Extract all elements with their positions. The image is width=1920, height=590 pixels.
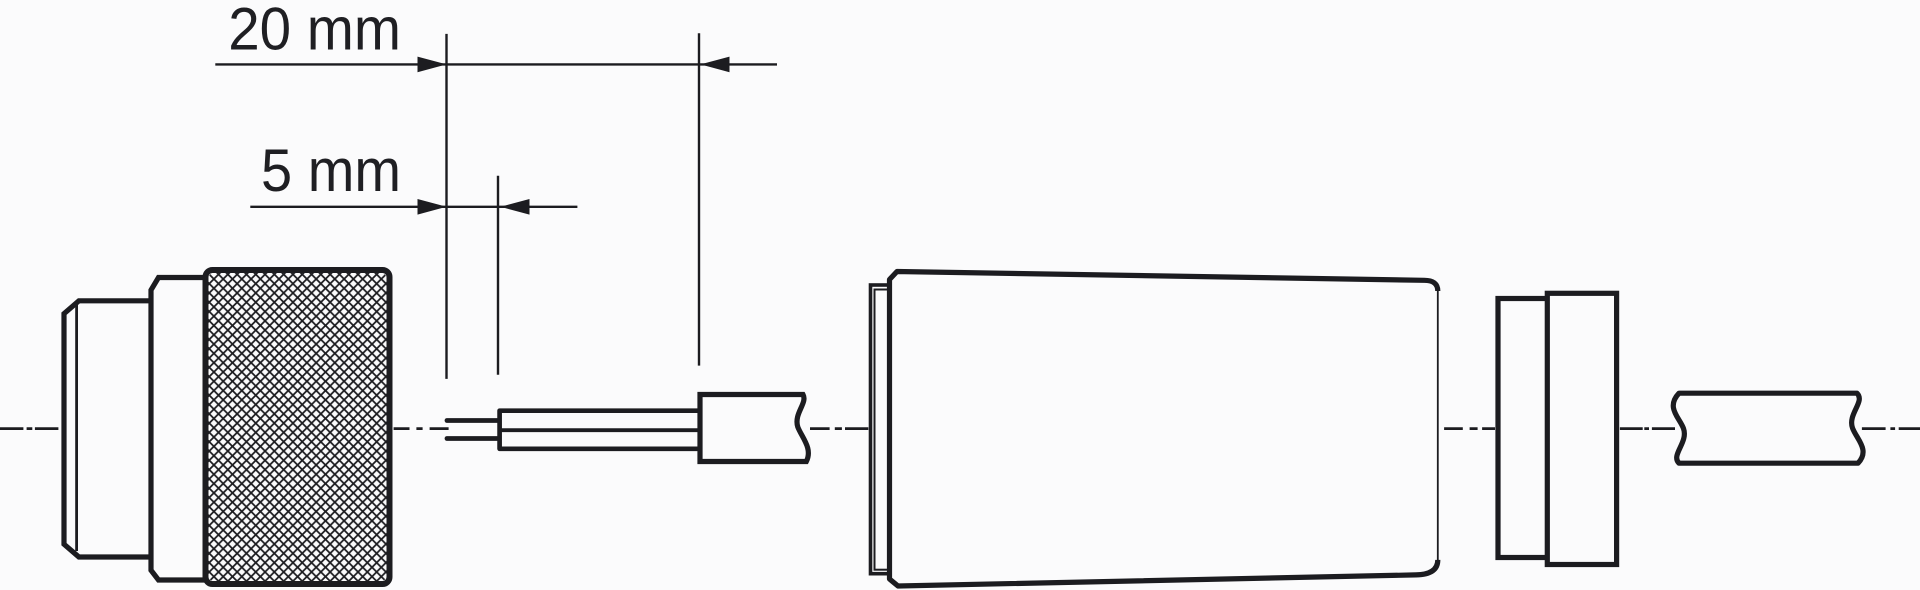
dielectric middle parting line (500, 428, 703, 432)
clamp nut front (1547, 293, 1616, 564)
connector front chamfer edge line (75, 304, 78, 551)
arrowhead right-pointing at 20 mm (418, 57, 447, 73)
body flange outer (871, 285, 901, 574)
extension line C at dielectric cut (497, 176, 499, 375)
centerline segment between knurled nut and conductor tip (394, 427, 449, 430)
knurled coupling nut (206, 270, 390, 584)
centerline segment between jacket and body flange (810, 427, 868, 430)
extension line A at conductor tip (445, 34, 447, 379)
centerline segment between body and clamp nut (1444, 427, 1495, 430)
centre conductor lower wire (447, 436, 502, 441)
arrowhead right-pointing at 5 mm (418, 199, 447, 215)
centerline segment between clamp nut and cable (1620, 427, 1675, 430)
dimension line 20 mm left part (215, 63, 777, 65)
cable jacket stub with break line (700, 395, 808, 462)
body right thin edge (1437, 285, 1439, 560)
connector front coupling piece (64, 301, 155, 557)
connector middle section (151, 278, 215, 581)
knurl crosshatch fill (209, 273, 387, 581)
extension line B at jacket cut (698, 33, 700, 365)
body flange inner contour (875, 290, 901, 570)
main tapered body fill (890, 272, 1438, 587)
dimension line 5 mm left part (250, 206, 577, 208)
dielectric section (500, 411, 703, 449)
centre conductor upper wire (447, 418, 502, 423)
centerline segment left of connector (0, 427, 58, 430)
centerline segment right of cable (1862, 427, 1920, 430)
arrowhead left-pointing at 5 mm (501, 199, 530, 215)
main tapered body outline (890, 272, 1438, 587)
svg-text:5 mm: 5 mm (261, 137, 401, 204)
svg-text:20 mm: 20 mm (228, 0, 401, 62)
clamp washer rear (1498, 299, 1552, 558)
arrowhead left-pointing at 20 mm (701, 57, 730, 73)
cable with break lines (1673, 393, 1863, 463)
